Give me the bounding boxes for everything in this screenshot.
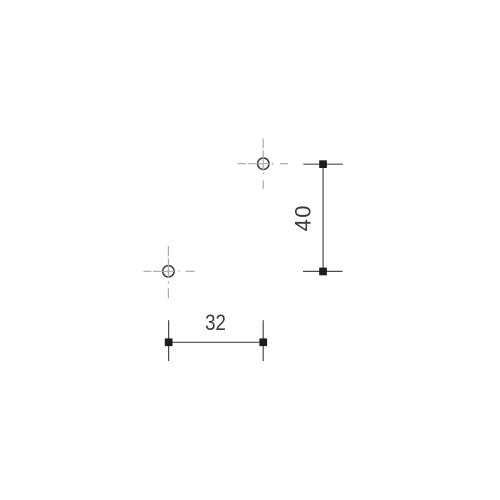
dimension 40 end square top <box>319 160 327 168</box>
centerline H2 vertical <box>167 246 169 298</box>
dimension 40 tick line top <box>303 163 343 165</box>
hole H1 circle <box>258 158 269 169</box>
svg-text:40: 40 <box>291 204 316 231</box>
dimension 40 end square bottom <box>319 268 327 276</box>
dimension 32 main line <box>169 341 264 343</box>
dimension 32 label <box>205 311 226 335</box>
centerline H2 horizontal <box>143 270 195 272</box>
centerline H1 horizontal <box>238 163 288 165</box>
dimension 40 label <box>291 204 316 231</box>
hole H2 circle <box>163 266 174 277</box>
svg-text:32: 32 <box>205 311 226 335</box>
dimension 40 tick line bottom <box>303 270 343 272</box>
dimension 32 extension line left <box>168 320 170 361</box>
dimension 32 end square right <box>259 338 267 346</box>
dimension 32 end square left <box>165 338 173 346</box>
dimension 32 extension line right <box>262 320 264 361</box>
dimension 40 main line <box>322 164 324 271</box>
centerline H1 vertical <box>262 138 264 188</box>
